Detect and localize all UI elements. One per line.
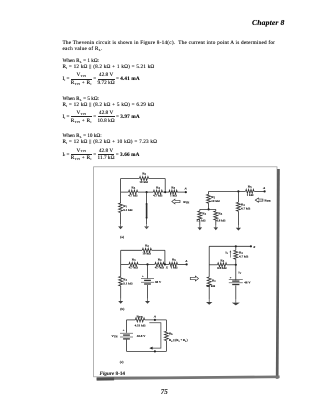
wire: (a)-right left vertical + R2	[208, 191, 210, 194]
equation block 2	[63, 96, 100, 102]
resistor R1 (b)-left 5.1k	[119, 276, 123, 286]
node A (c)	[154, 319, 156, 321]
ground (b)-right R1	[208, 299, 210, 302]
resistor R2 (b)-left top 10k	[142, 248, 151, 252]
header Chapter 8	[252, 18, 284, 27]
wire: (b)-left middle wire	[121, 263, 129, 265]
wire: (a)-left top-right corner down	[164, 179, 166, 193]
svg-text:R4 || (R5 + RL): R4 || (R5 + RL)	[169, 338, 188, 343]
ground (b)-right battery (large)	[235, 299, 237, 303]
wire: (b)-right left vertical	[208, 246, 210, 277]
wire: (b)-left top wire	[121, 249, 142, 251]
svg-text:1 kΩ: 1 kΩ	[170, 193, 177, 197]
svg-text:(c): (c)	[120, 360, 124, 364]
svg-text:10 kΩ: 10 kΩ	[142, 252, 151, 256]
svg-text:(b): (b)	[120, 307, 124, 311]
junction dot (b)-right R4 top	[235, 245, 237, 247]
wire: (a)-left top wire	[121, 178, 140, 180]
wire: (c) bottom wire	[127, 350, 167, 352]
resistor R2 (a)-right vertical 10k	[207, 194, 211, 203]
junction dot (b)-right battery node	[235, 264, 237, 266]
wire + resistor R4 (a)-right 4.7k	[237, 191, 239, 202]
figure right shadow bar	[276, 169, 280, 379]
resistor R5 (a)-left 1k	[169, 190, 177, 194]
svg-text:RL: RL	[169, 331, 173, 336]
svg-text:75: 75	[161, 388, 169, 396]
svg-text:5.1 kΩ: 5.1 kΩ	[197, 219, 206, 223]
svg-text:5.1 kΩ: 5.1 kΩ	[123, 208, 133, 212]
ground (b)-left R1	[120, 299, 122, 301]
svg-text:6.8 kΩ: 6.8 kΩ	[216, 219, 225, 223]
resistor R2 (a)-left top 10k	[139, 177, 148, 181]
junction dot (a)-left corner node	[164, 191, 166, 193]
svg-text:42.8 V: 42.8 V	[137, 334, 146, 338]
resistor R5 (b)-left 1k	[169, 262, 177, 266]
wire: (b)-right middle wire	[209, 264, 217, 266]
ground (a)-right R1	[199, 225, 201, 227]
resistor R3 (b)-left 4.7k	[129, 262, 138, 266]
svg-text:+: +	[123, 329, 125, 333]
resistor R1 (a)-left vertical 5.1k	[119, 203, 123, 213]
svg-text:1 kΩ: 1 kΩ	[247, 193, 254, 197]
svg-text:+: +	[142, 275, 144, 279]
wire + resistor R3 (a)-right 6.8k	[215, 209, 217, 211]
wire: (b)-right battery branch	[235, 265, 237, 280]
figure box frame	[94, 167, 277, 377]
svg-text:Figure 8-14: Figure 8-14	[100, 371, 126, 377]
svg-text:RTH: RTH	[183, 200, 189, 205]
svg-text:48 V: 48 V	[155, 280, 162, 284]
paragraph	[63, 40, 276, 46]
wire: (a)-right top wire	[209, 190, 246, 192]
svg-text:4.7 kΩ: 4.7 kΩ	[241, 207, 251, 211]
wire: (a)-left middle wire	[121, 191, 129, 193]
current loop indicator (c)	[149, 323, 161, 348]
svg-text:RTH: RTH	[264, 198, 270, 203]
equation block 3	[63, 133, 102, 139]
wire: (a)-right split horizontal	[200, 208, 216, 210]
node X (b)-right	[250, 245, 252, 247]
wire: (c) left vertical	[126, 320, 128, 333]
wire + resistor R1 (a)-right 5.1k	[199, 209, 201, 211]
svg-text:4.7 kΩ: 4.7 kΩ	[128, 193, 138, 197]
node X (b)-left	[164, 263, 166, 265]
node A (a)-left	[185, 191, 187, 193]
svg-text:10 kΩ: 10 kΩ	[139, 180, 148, 184]
resistor R5 (a)-right 1k	[246, 189, 254, 193]
wire: (c) top wire	[127, 319, 136, 321]
ground (a)-left R1	[120, 224, 122, 226]
svg-text:48 V: 48 V	[244, 280, 251, 284]
junction dot (b)-left battery branch	[146, 263, 148, 265]
resistor R4 (a)-left 4.7k	[153, 190, 162, 194]
svg-text:4.7 kΩ: 4.7 kΩ	[155, 266, 165, 270]
node A (b)-left	[186, 263, 188, 265]
wire: (b)-left left vertical	[120, 250, 122, 276]
resistor R3 (a)-left 4.7k	[129, 190, 138, 194]
wire: (b)-left battery to ground	[147, 285, 149, 299]
resistor R4 (b)-left 4.7k	[155, 262, 164, 266]
wire: (b)-right battery to ground	[235, 285, 237, 299]
ground (a)-left middle branch	[146, 224, 148, 226]
svg-text:4.7 kΩ: 4.7 kΩ	[153, 193, 163, 197]
wire: (b)-right top wire	[209, 245, 251, 247]
figure bottom shadow bar	[97, 375, 280, 380]
svg-text:4.7 kΩ: 4.7 kΩ	[239, 255, 249, 259]
junction dot (a)-right split node	[208, 208, 210, 210]
svg-text:4.7 kΩ: 4.7 kΩ	[129, 266, 139, 270]
arrow simplification (b)	[190, 276, 198, 281]
arrow RTH looking-in (a)-left	[172, 199, 180, 204]
wire: (b)-left corner down	[164, 250, 166, 264]
current arrow I2 (b)-right	[229, 252, 231, 258]
wire: (a)-left shorted-source branch	[146, 192, 148, 204]
resistor RL (c)	[164, 331, 168, 340]
svg-text:VTH: VTH	[111, 334, 117, 339]
wire: (a)-left left vertical	[120, 179, 122, 204]
svg-text:6.8 kΩ: 6.8 kΩ	[217, 266, 227, 270]
wire + resistor R4 (b)-right 4.7k	[235, 246, 237, 250]
equation block 1	[63, 58, 100, 64]
junction dot (c) bottom	[154, 350, 156, 352]
resistor R1 (b)-right 5.1k	[207, 277, 211, 287]
wire: (b)-left battery branch top	[147, 264, 149, 278]
svg-text:10 kΩ: 10 kΩ	[211, 199, 220, 203]
svg-text:5.1 kΩ: 5.1 kΩ	[123, 282, 133, 286]
svg-text:4.51 kΩ: 4.51 kΩ	[135, 323, 146, 327]
ground (a)-right R3	[215, 225, 217, 227]
resistor R3 (b)-right 6.8k	[218, 263, 227, 267]
ground (a)-right R4	[237, 225, 239, 228]
svg-text:RTH: RTH	[137, 314, 143, 319]
svg-text:5.1 kΩ: 5.1 kΩ	[206, 284, 215, 288]
arrow RTH looking-in (a)-right	[255, 198, 263, 202]
svg-text:1 kΩ: 1 kΩ	[171, 266, 178, 270]
ground (b)-left battery	[147, 299, 149, 301]
junction dot (a)-left middle branch	[146, 191, 148, 193]
wire: (c) outer right vertical	[165, 320, 167, 331]
svg-text:(a): (a)	[120, 235, 124, 239]
node A (a)-right	[264, 190, 266, 192]
resistor RTH (c) 4.51k	[135, 318, 144, 322]
junction dot (a)-right R4 top	[237, 190, 239, 192]
